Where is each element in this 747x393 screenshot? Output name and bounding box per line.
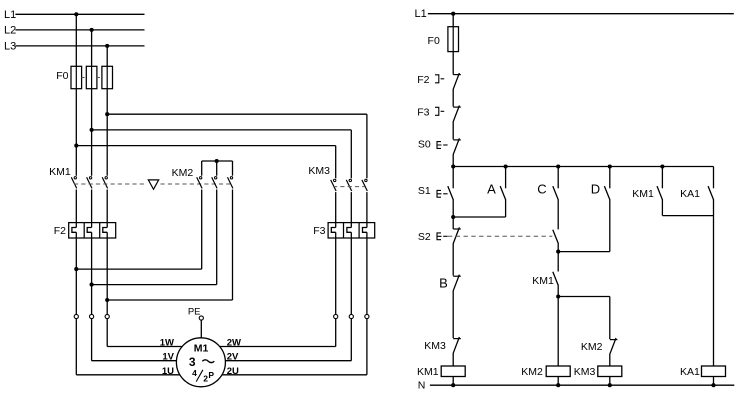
wire S2 mechanical link (dashed) [448,235,552,237]
wire phase 2 drop [91,30,93,176]
wire KM1 aux lower [662,199,713,215]
wire phase2 lower [87,190,91,361]
wire KM1 aux upper [661,167,663,189]
label coil KM3 [574,366,596,378]
wire F2-F3 [452,89,454,107]
wire phase2 branch to KM3 middle [92,130,352,178]
wire KM3 link dashes [333,186,365,188]
junction N KA1 [711,383,715,387]
label 3-phase [189,355,214,369]
wire S1 lower [452,199,454,217]
label A [487,181,496,196]
contact F3 NC [453,106,461,122]
wire S1 upper [452,167,454,189]
junction N KM3 [608,383,612,387]
symbol F3 thermal element [435,107,444,115]
label KM3 aux [424,340,446,352]
svg-text:KM1: KM1 [49,166,71,178]
label 2W [227,337,241,348]
svg-text:KM1: KM1 [632,188,654,200]
label F0 control [428,35,440,47]
junction C-D merge [556,250,560,254]
contact D NO [604,186,609,200]
svg-text:F2: F2 [417,74,429,86]
wire KM3-coil KM1 [452,353,454,366]
terminal U2 line [365,314,369,318]
terminal U1 line [74,314,78,318]
label 2U [227,366,239,377]
label KM1 [49,166,71,178]
junction phase1 branch [74,144,78,148]
svg-text:L1: L1 [4,9,16,21]
contact A NO [500,186,505,200]
svg-text:KM3: KM3 [424,340,446,352]
svg-text:S1: S1 [418,185,431,197]
contact F2 NC [453,73,461,89]
wire C branch upper [557,167,559,189]
svg-text:KM1: KM1 [532,275,554,287]
wire KA1 branch upper [713,167,715,189]
svg-text:KM3: KM3 [308,165,330,177]
label PE [188,306,201,317]
svg-text:KM2: KM2 [172,167,194,179]
overload F3 block [328,223,375,238]
svg-text:1U: 1U [162,366,174,377]
svg-text:2U: 2U [227,366,239,377]
wire KM3 pole1 lower [331,192,335,346]
wire 2W [220,346,336,348]
contactor KM1 pole 3 [102,177,107,189]
svg-text:4: 4 [192,368,197,378]
wire KM2 aux-coil KM3 [609,354,611,366]
fuse F0 pole 2 [86,66,97,88]
svg-text:F0: F0 [428,35,440,47]
junction L3 phase tap [105,44,109,48]
svg-text:S2: S2 [418,231,431,243]
label 2V [227,352,239,363]
contact KA1 aux NO [708,186,713,200]
label F0 [56,70,68,82]
wire A branch lower [453,199,505,217]
junction phase2 branch [90,128,94,132]
label coil KA1 [680,366,700,378]
svg-text:3: 3 [189,355,196,369]
contactor KM3 pole 1 [331,179,336,191]
wire mechanical link KM1-KM2 (dashed) [74,183,230,185]
wire KM2 branch [558,297,610,340]
svg-text:KA1: KA1 [680,188,700,200]
junction bus KM1 [660,164,664,168]
wire A branch upper [505,167,507,189]
junction KM2 bus [215,159,219,163]
wire KM2 pole2 return [92,190,217,285]
label B [439,275,448,290]
contact C NO [553,186,558,200]
fuse F0 link dashes [82,77,102,79]
terminal PE [199,316,203,338]
label 1V [162,352,174,363]
label KM1 hold [532,275,554,287]
label KM3 [308,165,330,177]
label KM2 aux [581,341,603,353]
fuse F0 control [448,27,459,52]
wire S0-bus [452,154,454,166]
contactor KM2 pole 1 [197,177,202,189]
label KA1 aux [680,188,700,200]
symbol S0 actuator [437,142,448,149]
junction phase3 return [105,298,109,302]
wire C branch mid [557,199,559,229]
junction L2 phase tap [90,28,94,32]
wire KM2 pole1 return [76,190,201,270]
svg-text:A: A [487,181,496,196]
label F3 control [417,106,429,118]
svg-text:KM2: KM2 [581,341,603,353]
wire KM3 pole2 lower [347,192,351,361]
label C [537,181,546,196]
label KM1 aux [632,188,654,200]
contactor KM1 pole 2 [87,177,92,189]
terminal V2 line [349,314,353,318]
symbol S1 actuator [437,190,448,197]
coil KM2 [546,366,570,385]
svg-text:KM1: KM1 [417,366,439,378]
svg-text:N: N [418,379,426,391]
contactor KM2 pole 2 [212,177,217,189]
wire KA1 branch lower [713,199,715,366]
symbol interlock triangle [148,180,158,189]
junction N KM1 [451,383,455,387]
contact KM2 aux NC [610,338,618,354]
coil KA1 [702,366,726,385]
junction phase1 return [74,267,78,271]
junction control L1 tap [451,12,455,16]
contact KM1 hold NO [553,272,558,286]
wire D branch lower [558,199,610,251]
wire KM3 pole3 lower [363,192,367,375]
node L2 supply line [4,24,145,36]
junction bus A [504,164,508,168]
svg-text:S0: S0 [418,138,431,150]
wire phase 1 drop [75,14,77,175]
wire 1U [76,374,180,376]
svg-text:PE: PE [188,306,201,317]
svg-text:D: D [591,181,600,196]
svg-text:2V: 2V [227,352,239,363]
svg-text:KA1: KA1 [680,366,700,378]
junction bus C [556,164,560,168]
svg-text:L2: L2 [4,24,16,36]
wire phase3 branch to KM3 right [107,114,367,178]
junction N KM2 [556,383,560,387]
node L1 supply line [4,9,145,21]
contactor KM3 pole 2 [346,179,351,191]
wire S2-B [452,243,454,275]
contact S2 NC button [453,227,461,243]
svg-text:KM3: KM3 [574,366,596,378]
wire 2V [225,360,351,362]
label 1W [160,337,174,348]
label S1 [418,185,431,197]
label 1U [162,366,174,377]
wire 1V [92,360,177,362]
label S2 [418,231,431,243]
wire 1W [107,346,182,348]
svg-text:L3: L3 [4,40,16,52]
coil KM1 [441,366,465,385]
svg-text:KM2: KM2 [521,366,543,378]
svg-text:F0: F0 [56,70,68,82]
wire 2U [222,374,367,376]
wire control bus [453,166,713,168]
contact S1 NO start button [448,186,453,200]
label coil KM2 [521,366,543,378]
junction bus D [608,164,612,168]
wire B-KM3 [452,291,454,338]
symbol F2 thermal element [435,75,444,83]
contact S0 NC stop button [453,138,461,154]
label F2 control [417,74,429,86]
junction S1-A merge [451,215,455,219]
contact KM3 aux NC [453,337,461,353]
svg-text:M1: M1 [194,342,209,354]
svg-text:L1: L1 [415,8,427,20]
label KM2 [172,167,194,179]
symbol S2 actuator [437,233,448,240]
svg-text:2W: 2W [227,337,241,348]
junction L1 phase tap [74,12,78,16]
overload F2 block [69,223,116,238]
svg-text:F3: F3 [417,106,429,118]
wire KM2 top bus [202,161,233,176]
wire phase3 lower [103,190,107,347]
label F2 [54,225,66,237]
coil KM3 [598,366,622,385]
contactor KM2 pole 3 [228,177,233,189]
contactor KM1 pole 1 [71,177,76,189]
label F3 [313,225,325,237]
junction bus S1 [451,164,455,168]
contact S2 linked NO [553,230,558,244]
wire control drop 1 [452,14,454,75]
node L3 supply line [4,40,145,52]
terminal W1 line [105,314,109,318]
wire phase1 branch to KM3 left [76,146,335,179]
wire C branch lower b [557,285,559,366]
wire KM2 pole3 return [107,190,232,301]
label M1 [194,342,209,354]
motor M1 body [176,338,225,387]
wire F3-S0 [452,122,454,140]
junction phase3 branch [105,112,109,116]
wire D branch upper [609,167,611,189]
label coil KM1 [417,366,439,378]
junction KM2 branch tap [556,294,560,298]
contact B NC [453,275,461,291]
wire phase 3 drop [106,46,108,176]
svg-text:1V: 1V [162,352,174,363]
contact KM1 aux NO [657,186,662,200]
svg-text:C: C [537,181,546,196]
terminal V1 line [90,314,94,318]
label S0 [418,138,431,150]
label pole count 4/2 P [192,368,214,383]
svg-text:F3: F3 [313,225,325,237]
wire C branch lower a [557,243,559,272]
wire phase1 lower [72,190,76,375]
svg-text:1W: 1W [160,337,174,348]
label D [591,181,600,196]
svg-text:F2: F2 [54,225,66,237]
terminal W2 line [334,314,338,318]
junction phase2 return [90,283,94,287]
contactor KM3 pole 3 [362,179,367,191]
fuse F0 pole 3 [102,66,113,88]
wire merge-S2 [452,217,454,229]
fuse F0 pole 1 [71,66,82,88]
svg-text:B: B [439,275,448,290]
node N line [418,379,734,391]
svg-text:P: P [208,370,214,380]
node L1 control line [415,8,734,20]
